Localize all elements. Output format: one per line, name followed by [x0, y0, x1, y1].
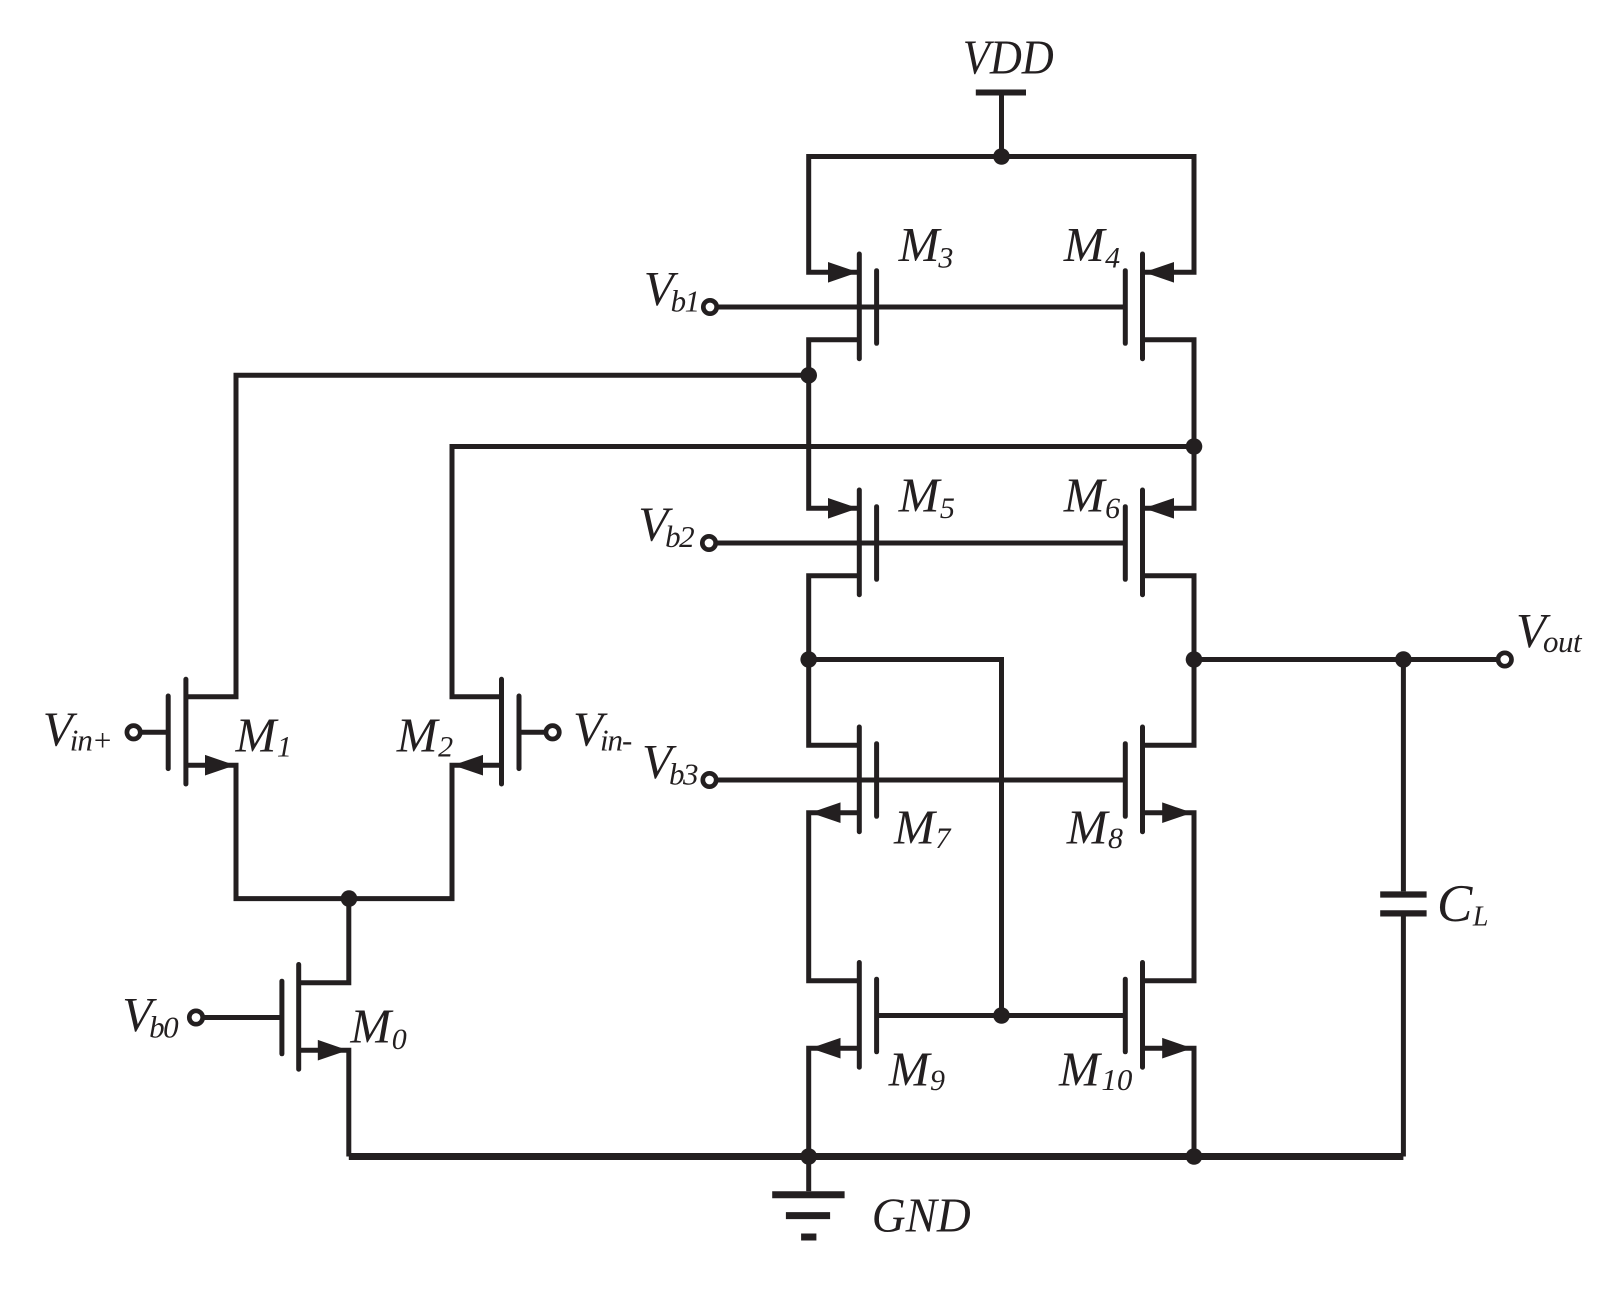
svg-text:GND: GND [872, 1187, 971, 1242]
svg-text:Vin-: Vin- [573, 702, 632, 758]
svg-text:M1: M1 [235, 707, 292, 763]
svg-text:Vb1: Vb1 [644, 261, 699, 319]
svg-text:M2: M2 [396, 707, 453, 763]
svg-text:Vout: Vout [1516, 603, 1583, 659]
svg-text:Vb2: Vb2 [638, 497, 694, 555]
svg-text:M0: M0 [349, 999, 406, 1057]
svg-text:M8: M8 [1066, 799, 1123, 855]
svg-text:M6: M6 [1063, 467, 1120, 525]
svg-text:M3: M3 [898, 217, 954, 275]
svg-text:Vb3: Vb3 [642, 734, 698, 792]
svg-text:M9: M9 [888, 1042, 945, 1098]
svg-text:Vb0: Vb0 [122, 987, 179, 1045]
svg-text:Vin+: Vin+ [43, 702, 112, 758]
svg-text:CL: CL [1437, 875, 1488, 933]
svg-text:M4: M4 [1063, 217, 1120, 275]
svg-text:VDD: VDD [963, 29, 1054, 84]
svg-text:M10: M10 [1058, 1042, 1133, 1098]
svg-text:M5: M5 [898, 467, 955, 525]
svg-text:M7: M7 [893, 799, 952, 855]
